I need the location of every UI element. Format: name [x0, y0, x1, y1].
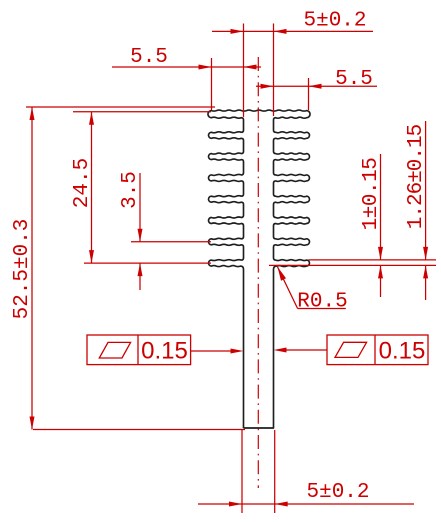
dimension 5.5 left	[112, 46, 261, 110]
svg-text:1.26±0.15: 1.26±0.15	[405, 124, 428, 229]
svg-text:5.5: 5.5	[130, 46, 168, 69]
dimension 3.5	[84, 171, 211, 290]
centerline	[257, 57, 259, 488]
svg-text:24.5: 24.5	[71, 158, 94, 208]
dimension 5±0.2 top	[212, 10, 373, 118]
svg-text:0.15: 0.15	[141, 338, 188, 365]
svg-text:5±0.2: 5±0.2	[303, 10, 366, 33]
heatsink profile outline	[208, 110, 310, 428]
dimension 5.5 right	[256, 68, 377, 110]
svg-text:3.5: 3.5	[119, 171, 142, 209]
dimension 5±0.2 bottom	[198, 430, 414, 513]
svg-text:5±0.2: 5±0.2	[306, 481, 369, 504]
dimension 24.5	[71, 112, 211, 263]
svg-text:52.5±0.3: 52.5±0.3	[11, 219, 34, 320]
dimension 1.26±0.15	[405, 121, 428, 300]
feature control frame flatness 0.15 right	[274, 335, 429, 365]
svg-text:0.15: 0.15	[379, 338, 426, 365]
svg-text:5.5: 5.5	[335, 68, 373, 91]
feature control frame flatness 0.15 left	[87, 335, 244, 365]
dimension 1±0.15	[269, 154, 436, 297]
leader R0.5 fillet	[278, 267, 348, 314]
svg-text:R0.5: R0.5	[297, 291, 347, 314]
svg-text:1±0.15: 1±0.15	[360, 158, 383, 231]
dimension 52.5±0.3 left	[11, 107, 245, 430]
